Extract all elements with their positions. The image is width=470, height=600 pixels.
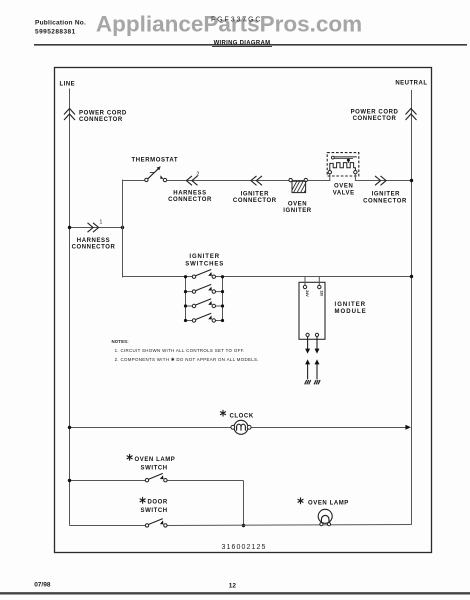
svg-text:316002125: 316002125 xyxy=(222,544,267,551)
igniter connector right (chevrons) xyxy=(375,176,386,185)
svg-text:OVEN LAMP: OVEN LAMP xyxy=(135,457,176,463)
ground chassis hatch left xyxy=(305,380,311,384)
svg-text:IGNITER: IGNITER xyxy=(189,254,220,260)
door switch line xyxy=(70,525,146,527)
svg-text:HARNESS: HARNESS xyxy=(173,191,206,197)
svg-text:FGF337GC: FGF337GC xyxy=(211,17,262,24)
clock line xyxy=(70,427,232,429)
oven lamp switch label xyxy=(127,454,133,461)
svg-text:CONNECTOR: CONNECTOR xyxy=(79,117,123,123)
junction branch/vertical xyxy=(121,226,124,229)
igniter switch row 1 xyxy=(184,270,224,279)
igniter switch row 4 xyxy=(184,313,224,322)
thermostat xyxy=(145,166,167,182)
schematic border frame xyxy=(55,68,432,553)
igniter switch rails xyxy=(185,277,187,321)
svg-text:OVEN: OVEN xyxy=(288,201,307,207)
svg-text:AppliancePartsPros.com: AppliancePartsPros.com xyxy=(96,12,362,37)
oven igniter xyxy=(289,178,308,192)
svg-text:IGNITER: IGNITER xyxy=(335,302,367,308)
svg-text:5995288381: 5995288381 xyxy=(35,29,76,36)
igniter switch row 2 xyxy=(184,284,224,293)
junction igniter line / neutral xyxy=(410,275,413,278)
svg-text:MODULE: MODULE xyxy=(335,309,367,315)
junction on LINE rail xyxy=(68,226,71,229)
svg-text:WIRING DIAGRAM: WIRING DIAGRAM xyxy=(214,41,271,47)
svg-text:DOOR: DOOR xyxy=(148,500,168,506)
svg-text:2. COMPONENTS WITH ✱ DO NOT AP: 2. COMPONENTS WITH ✱ DO NOT APPEAR ON AL… xyxy=(115,357,259,362)
wire: thermostat line left segment xyxy=(123,180,145,182)
svg-text:12: 12 xyxy=(229,583,237,590)
wire: oven valve to neutral rail xyxy=(354,174,356,181)
wire: oven igniter to oven valve xyxy=(308,180,331,182)
svg-text:OVEN: OVEN xyxy=(334,183,353,189)
svg-text:SWITCH: SWITCH xyxy=(141,508,168,514)
clock label with asterisk xyxy=(220,410,226,417)
svg-text:POWER CORD: POWER CORD xyxy=(351,109,399,115)
svg-text:SWITCHES: SWITCHES xyxy=(185,262,224,268)
wire: vertical from thermostat line to igniter switch line xyxy=(122,180,124,278)
ground chassis hatch right xyxy=(314,380,320,384)
svg-text:Publication No.: Publication No. xyxy=(35,20,86,27)
svg-text:1. CIRCUIT SHOWN WITH ALL CONT: 1. CIRCUIT SHOWN WITH ALL CONTROLS SET T… xyxy=(115,348,245,353)
svg-text:1: 1 xyxy=(100,220,103,226)
svg-text:IGNITER: IGNITER xyxy=(241,192,269,198)
igniter connector mid (chevrons) xyxy=(251,176,262,185)
igniter switch row 3 xyxy=(184,299,224,308)
junction valve line / neutral xyxy=(410,179,413,182)
wire: igniter switches line xyxy=(123,276,193,278)
oven valve xyxy=(327,153,359,176)
svg-text:07/98: 07/98 xyxy=(34,582,51,589)
svg-text:120: 120 xyxy=(320,290,324,296)
svg-text:2: 2 xyxy=(197,172,200,178)
spark electrode leads xyxy=(308,337,317,380)
header rule xyxy=(34,44,467,46)
svg-text:IGNITER: IGNITER xyxy=(283,208,311,214)
svg-text:CONNECTOR: CONNECTOR xyxy=(168,197,212,203)
svg-text:VALVE: VALVE xyxy=(333,191,355,197)
power cord connector right (chevrons) xyxy=(406,109,417,121)
svg-text:CONNECTOR: CONNECTOR xyxy=(363,199,407,205)
svg-text:24V: 24V xyxy=(305,290,309,297)
svg-text:CONNECTOR: CONNECTOR xyxy=(233,198,277,204)
svg-text:IGNITER: IGNITER xyxy=(372,192,400,198)
oven lamp switch xyxy=(145,473,167,482)
wire: branch line to harness connector 1 xyxy=(70,227,123,229)
svg-text:SWITCH: SWITCH xyxy=(141,465,168,471)
oven lamp switch line xyxy=(70,480,146,482)
svg-text:CLOCK: CLOCK xyxy=(230,413,254,419)
svg-text:HARNESS: HARNESS xyxy=(77,238,110,244)
harness connector 2 (chevrons) xyxy=(186,176,197,185)
igniter module xyxy=(299,277,325,340)
svg-text:OVEN LAMP: OVEN LAMP xyxy=(308,500,349,506)
title underline xyxy=(212,46,272,48)
svg-text:CONNECTOR: CONNECTOR xyxy=(353,116,397,122)
svg-text:NEUTRAL: NEUTRAL xyxy=(395,81,427,87)
clock xyxy=(231,420,251,434)
harness connector 1 (chevrons) xyxy=(88,223,99,232)
svg-text:POWER CORD: POWER CORD xyxy=(79,110,127,116)
door switch xyxy=(145,519,167,528)
wire: thermostat to oven igniter xyxy=(167,180,289,182)
svg-text:NOTES:: NOTES: xyxy=(112,339,130,344)
footer rule xyxy=(0,592,470,594)
svg-text:CONNECTOR: CONNECTOR xyxy=(72,244,116,250)
power cord connector left (chevrons) xyxy=(64,109,75,121)
wire: right NEUTRAL rail vertical xyxy=(411,90,413,525)
svg-text:LINE: LINE xyxy=(60,82,76,88)
door switch label xyxy=(140,497,146,504)
oven lamp xyxy=(318,509,332,526)
svg-text:THERMOSTAT: THERMOSTAT xyxy=(132,157,179,163)
oven lamp label xyxy=(298,497,304,504)
wire: left LINE rail vertical xyxy=(69,89,71,526)
